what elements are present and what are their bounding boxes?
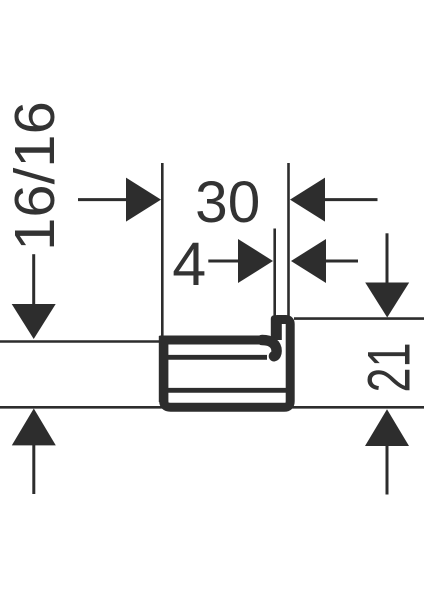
profile left wall: [159, 336, 169, 402]
dim 30 arrow right: [78, 178, 161, 222]
extension line right (30 dim): [287, 163, 290, 316]
dim 4 arrow right: [208, 239, 273, 283]
extension line (4 dim): [273, 229, 276, 317]
profile inner line upper: [168, 355, 267, 360]
profile inner line lower: [168, 388, 286, 393]
svg-text:16/16: 16/16: [3, 101, 66, 251]
svg-text:21: 21: [356, 342, 423, 392]
profile hook leg: [271, 315, 282, 340]
dim 4 arrow left: [291, 239, 358, 283]
arrow up left: [12, 409, 56, 495]
profile top wall: [160, 336, 266, 345]
glass line bottom: [0, 406, 424, 409]
extension line left (30 dim): [161, 163, 164, 336]
dim 16/16 arrow down: [12, 254, 56, 339]
dim 30 arrow left: [290, 178, 378, 222]
svg-text:30: 30: [195, 170, 260, 235]
svg-text:4: 4: [172, 230, 206, 298]
glass line right: [294, 317, 424, 320]
glass line left: [0, 340, 159, 343]
profile top wall curl tongue: [262, 340, 277, 356]
arrow up right: [365, 409, 409, 494]
profile bottom wall, right wall and hook top: [164, 320, 291, 408]
dim 21 arrow down: [365, 233, 409, 317]
